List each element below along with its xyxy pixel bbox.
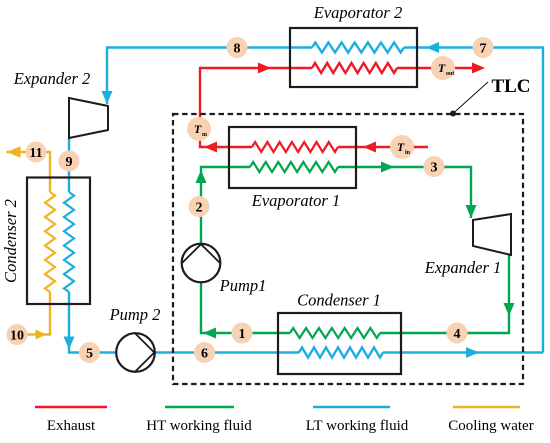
svg-text:T: T xyxy=(397,140,405,154)
arrow: exhaust outlet after T_out (rightward) xyxy=(472,63,485,74)
svg-text:6: 6 xyxy=(201,346,208,361)
node T_in xyxy=(390,135,414,159)
wire: HT fluid Evaporator 1 to Expander 1 xyxy=(338,167,471,218)
pump symbol: Pump 1 xyxy=(182,244,221,283)
wire: exhaust inlet into Evaporator 1 (from T_in) xyxy=(356,146,428,148)
arrow: HT fluid down into Expander 1 xyxy=(466,205,477,218)
heat exchanger box: Condenser 1 xyxy=(278,313,401,374)
wire: cooling water outlet up to node 11 xyxy=(7,152,51,192)
svg-text:2: 2 xyxy=(196,200,203,215)
arrow: LT fluid into Expander 2 xyxy=(102,91,113,104)
coil: Evaporator 1 HT fluid zigzag xyxy=(250,162,338,172)
svg-text:out: out xyxy=(446,71,454,77)
svg-text:8: 8 xyxy=(234,41,241,56)
svg-text:Evaporator 1: Evaporator 1 xyxy=(251,191,340,210)
node 2 xyxy=(189,196,210,217)
coil: Evaporator 1 exhaust zigzag xyxy=(252,142,338,152)
svg-text:T: T xyxy=(194,122,202,136)
svg-text:9: 9 xyxy=(66,155,73,170)
node 1 xyxy=(232,323,253,344)
arrow: exhaust leaving Evaporator 1 (leftward) xyxy=(204,142,217,153)
node T_out xyxy=(431,56,455,80)
node 10 xyxy=(7,324,28,345)
svg-text:T: T xyxy=(438,61,446,75)
wire: LT fluid Condenser 2 lower stub xyxy=(68,292,70,304)
arrow: HT fluid rightward to node 3 xyxy=(381,162,394,173)
svg-text:Pump1: Pump1 xyxy=(219,276,267,295)
wire: LT fluid bottom run Condenser2 outlet through Pump 2 and Condenser 1 xyxy=(69,304,543,358)
svg-text:Cooling water: Cooling water xyxy=(448,418,533,434)
coil: Condenser 2 cooling water zigzag xyxy=(45,192,55,292)
svg-text:3: 3 xyxy=(431,160,438,175)
arrow: cooling water outlet (leftward) xyxy=(7,146,21,158)
svg-text:TLC: TLC xyxy=(491,76,530,97)
svg-text:Evaporator 2: Evaporator 2 xyxy=(313,3,402,22)
heat exchanger box: Evaporator 2 xyxy=(290,28,417,87)
TLC boundary dashed box xyxy=(173,114,523,384)
legend swatch: HT working fluid xyxy=(165,406,234,409)
wire: cooling water inlet node 10 to Condenser 2 xyxy=(17,292,50,335)
svg-text:Exhaust: Exhaust xyxy=(47,418,96,434)
svg-text:Pump 2: Pump 2 xyxy=(109,305,161,324)
wire: HT fluid Condenser 1 outlet back to Pump 1 xyxy=(201,282,290,333)
node 4 xyxy=(447,323,468,344)
heat exchanger box: Condenser 2 xyxy=(27,178,90,305)
svg-text:HT working fluid: HT working fluid xyxy=(146,418,252,434)
svg-text:m: m xyxy=(202,132,207,138)
node 7 xyxy=(473,37,494,58)
svg-text:in: in xyxy=(405,150,411,156)
node 5 xyxy=(79,342,100,363)
arrow: exhaust into Evaporator 2 (rightward) xyxy=(258,63,271,74)
svg-text:5: 5 xyxy=(86,346,93,361)
svg-text:Condenser 1: Condenser 1 xyxy=(297,291,381,310)
svg-text:Condenser 2: Condenser 2 xyxy=(1,199,20,283)
svg-text:11: 11 xyxy=(29,146,42,161)
wire: LT fluid Expander 2 outlet down to Condenser 2 xyxy=(68,138,70,192)
wire: HT fluid Expander 1 outlet down to Condenser 1 xyxy=(380,255,509,333)
node 9 xyxy=(59,151,80,172)
arrow: LT fluid down from Condenser 2 xyxy=(64,337,75,350)
coil: Condenser 2 LT fluid zigzag xyxy=(64,192,74,292)
pump symbol: Pump 2 xyxy=(116,333,155,372)
svg-text:1: 1 xyxy=(239,327,246,342)
svg-text:7: 7 xyxy=(480,41,487,56)
arrow: exhaust into Evaporator 1 (leftward) xyxy=(363,142,376,153)
wire: HT fluid Pump 1 outlet up into Evaporator 1 xyxy=(201,167,250,244)
svg-text:Expander 1: Expander 1 xyxy=(424,258,502,277)
arrow: HT fluid down from Expander 1 xyxy=(504,303,515,316)
wire: exhaust from Evaporator 1 outlet up through T_m into Evaporator 2 xyxy=(200,63,480,147)
legend swatch: Cooling water xyxy=(453,406,520,409)
arrow: LT fluid into Evaporator 2 (leftward) xyxy=(426,42,439,53)
svg-text:Expander 2: Expander 2 xyxy=(13,69,91,88)
wire: exhaust stubs at Evaporator 1 xyxy=(229,146,356,148)
node 11 xyxy=(26,142,47,163)
legend swatch: Exhaust xyxy=(35,406,107,409)
expander symbol: Expander 1 xyxy=(473,214,511,255)
node 8 xyxy=(227,37,248,58)
coil: Condenser 1 HT fluid zigzag xyxy=(290,328,380,338)
node 6 xyxy=(194,342,215,363)
arrow: HT fluid up into Evaporator 1 xyxy=(196,170,207,183)
svg-text:10: 10 xyxy=(10,328,24,343)
node 3 xyxy=(424,156,445,177)
arrow: LT fluid rightward after Condenser 1 xyxy=(466,347,479,358)
expander symbol: Expander 2 xyxy=(69,98,108,138)
svg-text:LT working fluid: LT working fluid xyxy=(306,418,409,434)
node T_m xyxy=(187,117,211,141)
heat exchanger box: Evaporator 1 xyxy=(229,127,356,188)
arrow: cooling water into Condenser 2 (rightward) xyxy=(36,330,47,340)
arrow: HT fluid leftward into Pump 1 riser xyxy=(203,328,216,339)
TLC leader line and dot xyxy=(450,82,488,117)
wire: LT fluid top run from Evaporator 2 to Expander 2 inlet xyxy=(107,43,543,353)
legend swatch: LT working fluid xyxy=(313,406,390,409)
svg-text:4: 4 xyxy=(454,327,461,342)
